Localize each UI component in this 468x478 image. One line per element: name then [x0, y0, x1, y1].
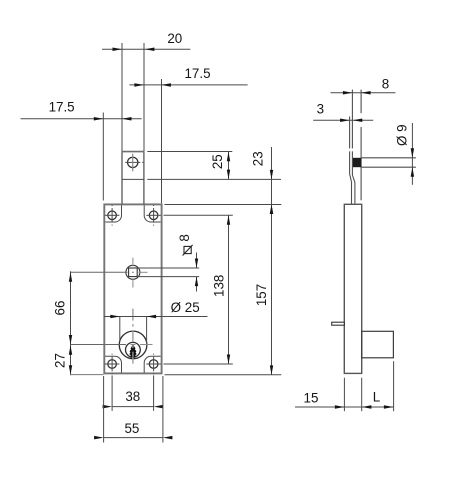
dimension 157 (body height) [254, 205, 273, 375]
dimension 8 (side view top) [331, 77, 396, 95]
dimension 38 extension lines [112, 375, 154, 411]
svg-text:23: 23 [251, 151, 266, 166]
top-left mounting hole [105, 205, 120, 226]
body left edge extension line [102, 113, 104, 201]
svg-text:Ø 25: Ø 25 [171, 300, 200, 315]
svg-text:20: 20 [167, 31, 182, 46]
bend line across tab [122, 178, 144, 180]
body right edge extension line [161, 79, 163, 203]
keyway profile [130, 346, 135, 358]
svg-text:17.5: 17.5 [184, 66, 210, 81]
side view: pin cross-section (filled) [353, 158, 361, 167]
svg-text:L: L [373, 390, 380, 405]
side view: pin D9 outline [361, 158, 416, 167]
side view: left fixing pin [332, 322, 345, 325]
cylinder plug circle [125, 342, 140, 357]
top-left mounting boss [105, 205, 121, 222]
lock body outline (front view) [104, 204, 161, 373]
side view: plate rear edge x=352.4 [351, 90, 353, 175]
svg-text:3: 3 [317, 102, 324, 117]
dimension 20 (top) [102, 31, 190, 51]
dimension L (cylinder length) [373, 390, 394, 409]
svg-text:138: 138 [212, 275, 227, 297]
dimension 15/L extension lines [344, 361, 393, 411]
side view: faceplate bend jog [350, 174, 355, 204]
top-right mounting hole [146, 205, 161, 226]
square 8 dimension extension lines [138, 268, 199, 277]
dimension 15 (case depth) [295, 390, 394, 408]
svg-text:38: 38 [125, 389, 140, 404]
dimension 3 (faceplate thickness) [313, 102, 373, 123]
dimension D9 (pin) [394, 123, 414, 185]
svg-text:55: 55 [124, 421, 139, 436]
svg-text:Ø 9: Ø 9 [394, 124, 409, 146]
tab hole [125, 154, 143, 172]
side view: lock case body [344, 204, 361, 373]
bottom-right mounting boss [144, 356, 160, 372]
spindle hole horizontal centerline [71, 271, 148, 273]
svg-text:25: 25 [210, 154, 225, 169]
side view: faceplate front edge x=349.6 [349, 117, 351, 174]
dimension 17.5 (left, body edge to tab) [21, 100, 142, 121]
body bottom extension line (right) [165, 374, 282, 376]
square spindle hole with boss circle [126, 265, 140, 279]
bottom-right mounting hole [146, 354, 161, 375]
svg-text:17.5: 17.5 [49, 100, 75, 115]
dimension 23 (bend to body top) [251, 147, 274, 214]
cylinder horizontal centerline / 66-27 extension [71, 344, 153, 346]
dimension 55 extension lines [104, 376, 163, 443]
bend line extension (right) [147, 178, 281, 180]
dimension 66 (spindle to cylinder) [52, 271, 72, 375]
svg-text:157: 157 [254, 284, 269, 306]
cylinder vertical centerline [132, 309, 134, 368]
dimension 17.5 (right, tab to body edge) [129, 66, 247, 87]
side view: cylinder housing block [362, 331, 394, 358]
dimension 138 (hole spacing) [212, 215, 231, 364]
faceplate tab outline (front view) [121, 152, 144, 205]
dimension square-8 (spindle hole) [195, 253, 198, 292]
text 8 of square-8 label [177, 234, 192, 241]
cylinder circle D25 [119, 331, 147, 359]
square symbol of square-8 label [183, 245, 193, 256]
top-right mounting boss [144, 205, 160, 222]
spindle hole vertical centerline [132, 258, 134, 288]
body bottom extension line (left) [70, 374, 104, 376]
body top extension line (right) [165, 204, 282, 206]
dimension 55 (body width) [94, 421, 172, 439]
dimension D25 (cylinder) [104, 300, 208, 318]
dimension 27 (cylinder to body bottom) [52, 345, 72, 375]
side view: case front edge x=361.1 [360, 90, 362, 201]
svg-text:27: 27 [52, 353, 67, 368]
tab top extension line (right) [147, 151, 232, 153]
dimension D25 extension lines [120, 317, 147, 344]
svg-text:66: 66 [52, 301, 67, 316]
dimension 38 (hole spacing horizontal) [103, 389, 164, 409]
svg-text:8: 8 [382, 77, 389, 92]
extension lines for dim 20 (tab edges extended) [122, 43, 144, 151]
svg-text:8: 8 [177, 234, 192, 241]
dimension 25 (tab top to bend) [210, 152, 230, 180]
bottom-left mounting hole [105, 354, 120, 375]
svg-text:15: 15 [304, 390, 319, 405]
hole centerline extensions right [164, 215, 233, 364]
bottom-left mounting boss [105, 356, 121, 372]
